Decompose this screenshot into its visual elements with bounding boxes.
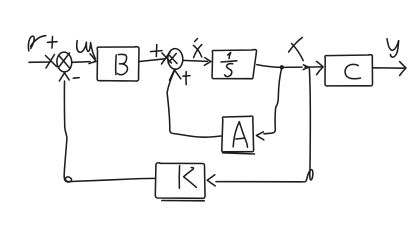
- wire S2 to integrator: [183, 58, 211, 66]
- label u: [77, 41, 96, 59]
- summing junction S2: [167, 48, 183, 69]
- wire A to S2 (+): [167, 70, 221, 137]
- block integrator 1/s: [212, 50, 256, 79]
- wire integrator to node X: [257, 65, 302, 68]
- wire B to S2: [139, 52, 171, 64]
- wire K to S1 (-): [59, 73, 155, 182]
- label y: [387, 39, 399, 57]
- block A: [222, 116, 255, 154]
- label - (K feedback sign): [73, 77, 79, 80]
- wire C to output y: [373, 62, 406, 76]
- block C: [325, 55, 373, 86]
- wire S1 to B: [73, 54, 96, 64]
- wire node X to C: [305, 61, 323, 74]
- node X junction dot: [280, 65, 284, 69]
- node r (input label): [28, 36, 45, 51]
- summing junction S1: [56, 52, 72, 73]
- block K: [155, 163, 205, 201]
- wire r input arrow: [29, 55, 57, 69]
- block B: [97, 47, 139, 81]
- wire feedback node X down to A: [256, 68, 281, 140]
- label x (state): [289, 38, 304, 61]
- label + (B to S2 sign): [151, 45, 163, 57]
- node K tap tick: [303, 65, 308, 70]
- label + (A feedback sign): [183, 72, 190, 85]
- label + (r input sign): [48, 37, 58, 49]
- wire feedback tap down to K: [207, 67, 313, 185]
- label x-dot: [193, 39, 201, 58]
